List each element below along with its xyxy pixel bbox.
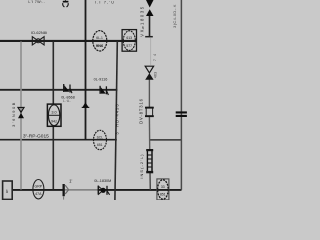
bottom-left equipment box bbox=[3, 181, 13, 199]
svg-text:3'6N90B: 3'6N90B bbox=[11, 101, 16, 127]
svg-text:74: 74 bbox=[153, 51, 157, 61]
flow arrow up on x=85.5 line bbox=[82, 102, 90, 107]
svg-text:94z: 94z bbox=[51, 120, 57, 124]
svg-text:INS(-2'L): INS(-2'L) bbox=[139, 153, 144, 178]
reducer / orifice on pipe D bbox=[63, 184, 69, 200]
wire: pipe D right segment bbox=[98, 189, 182, 191]
svg-text:613: 613 bbox=[126, 36, 132, 40]
svg-text:GRP: GRP bbox=[35, 185, 43, 189]
svg-text:DV-8T316: DV-8T316 bbox=[138, 98, 143, 124]
instrument bubble GRP/47A bbox=[33, 180, 44, 199]
wire: stub end tick bbox=[145, 36, 153, 38]
wire: vertical line x=53.3 bbox=[52, 42, 54, 190]
svg-text:3" HD-4453: 3" HD-4453 bbox=[115, 103, 120, 134]
valve on x=149.4 line (top) bbox=[145, 66, 153, 80]
vent symbol top center bbox=[63, 0, 69, 7]
wire: horizontal pipe C2 right segment y=139.9 bbox=[149, 139, 181, 141]
spec break on x=181.4 bbox=[176, 111, 187, 117]
bottom-right square instrument bbox=[157, 179, 169, 200]
instrument square S1 with circle (x=129.3,y=40.4) bbox=[122, 30, 136, 52]
svg-text:851: 851 bbox=[160, 193, 166, 197]
svg-text:6L-1: 6L-1 bbox=[96, 36, 103, 40]
orifice flange spool on x=149.4 bbox=[145, 107, 154, 117]
wire: vertical line x=85.5 bbox=[85, 0, 87, 140]
svg-text:577: 577 bbox=[126, 44, 132, 48]
check valve B1 on pipe B bbox=[64, 84, 72, 93]
svg-text:0L-9116: 0L-9116 bbox=[94, 77, 108, 81]
svg-text:3.0: 3.0 bbox=[51, 110, 56, 114]
instrument bubble E1 (x=99.8,y=40.8) bbox=[93, 31, 107, 51]
wire: pipe D gray middle segment bbox=[64, 189, 99, 191]
svg-text:33: 33 bbox=[161, 185, 165, 189]
svg-text:3(C4-0D-.K: 3(C4-0D-.K bbox=[172, 4, 177, 28]
wire: faint continuation of stub bbox=[150, 38, 152, 65]
svg-text:L'I 7W:..: L'I 7W:.. bbox=[28, 0, 45, 4]
wire: horizontal pipe A y=40.9 bbox=[0, 40, 137, 42]
svg-text:I.I 7,'U: I.I 7,'U bbox=[95, 0, 115, 4]
svg-text:SCL: SCL bbox=[97, 135, 104, 139]
svg-text:0L-1830M: 0L-1830M bbox=[94, 179, 111, 183]
globe valve 0L-1830M on pipe D bbox=[98, 186, 109, 195]
wire: horizontal pipe B y=89.8 bbox=[0, 89, 117, 91]
wire: vertical line x=149.4 top stub bbox=[149, 14, 151, 37]
svg-text:651: 651 bbox=[97, 143, 103, 147]
wire: vertical gray line x=21 bbox=[20, 42, 22, 190]
instrument bubble E2 (x=100,y=140) bbox=[94, 130, 107, 149]
svg-text:9N6: 9N6 bbox=[96, 43, 104, 48]
wire: vertical line x=117 slight skew bbox=[115, 41, 117, 200]
svg-text:VX-18035: VX-18035 bbox=[140, 5, 145, 36]
wire: vertical line x=181.4 bbox=[180, 0, 182, 190]
svg-text:ID-62N8i: ID-62N8i bbox=[31, 30, 47, 35]
svg-text:3"-RP-G015: 3"-RP-G015 bbox=[23, 133, 49, 139]
gate valve ID-62N8i on pipe A bbox=[32, 37, 44, 45]
instrument square S2 with circle (x=54,y=115.2) bbox=[47, 104, 61, 126]
top right solid valve on stub bbox=[146, 0, 154, 16]
svg-text:4X3: 4X3 bbox=[154, 72, 158, 78]
wire: horizontal pipe D bottom y=189.9 dark left segment bbox=[12, 189, 63, 191]
check valve B2 on pipe B bbox=[100, 86, 108, 95]
wire: vertical line x=149.4 mid segment bbox=[148, 80, 150, 108]
strainer on x=149.7 bbox=[146, 149, 153, 173]
wire: vertical line x=149.4 lower segments bbox=[148, 116, 150, 149]
svg-text:1': 1' bbox=[69, 179, 72, 184]
svg-text:L.·A..: L.·A.. bbox=[63, 99, 71, 103]
left valve on gray line x=21 bbox=[18, 108, 24, 119]
svg-text:47A: 47A bbox=[35, 192, 42, 196]
wire: horizontal pipe C y=139.7 bbox=[0, 139, 117, 141]
